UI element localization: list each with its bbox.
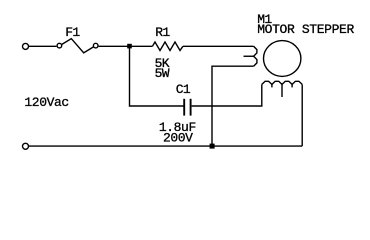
winding B cusp stub 2 xyxy=(291,84,293,87)
wire winding A bottom to vertical return xyxy=(212,66,254,146)
motor M1 winding A (vertical coil) xyxy=(244,46,257,66)
svg-text:5W: 5W xyxy=(155,66,170,81)
wire terminal TP1 to fuse xyxy=(29,45,57,47)
terminal TP1 (top-left input) xyxy=(23,43,29,49)
svg-text:C1: C1 xyxy=(176,82,191,97)
svg-text:200V: 200V xyxy=(163,130,193,145)
svg-text:120Vac: 120Vac xyxy=(24,95,69,110)
node junction J1 xyxy=(127,44,132,49)
motor M1 winding B (horizontal coil) xyxy=(262,81,302,97)
wire bottom rail xyxy=(29,145,303,147)
winding B center tap stub xyxy=(281,84,283,97)
node junction J2 xyxy=(210,144,215,149)
wire resistor to winding A xyxy=(183,45,254,47)
wire winding B right lead down to bottom rail xyxy=(301,84,303,146)
svg-text:F1: F1 xyxy=(65,25,80,40)
wire fuse to resistor R1 xyxy=(99,45,153,47)
winding B cusp stub 1 xyxy=(271,84,273,87)
capacitor C1 xyxy=(184,99,190,116)
fuse F1 xyxy=(57,39,98,53)
svg-text:MOTOR STEPPER: MOTOR STEPPER xyxy=(257,22,354,37)
resistor R1 xyxy=(152,42,183,51)
motor M1 body xyxy=(264,41,301,77)
terminal TP2 (bottom-left input) xyxy=(23,143,29,149)
winding A center tap stub xyxy=(244,55,254,57)
wire junction J1 down to capacitor C1 xyxy=(130,46,184,106)
wire capacitor C1 to winding B xyxy=(192,84,262,106)
svg-text:R1: R1 xyxy=(155,25,170,40)
